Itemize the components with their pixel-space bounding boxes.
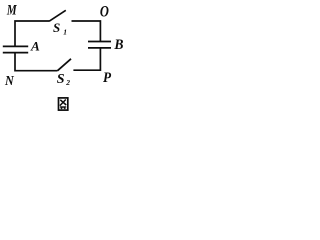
svg-text:N: N: [4, 74, 14, 89]
svg-text:O: O: [100, 3, 109, 21]
svg-text:P: P: [103, 69, 111, 86]
svg-text:A: A: [30, 38, 40, 53]
svg-text:2: 2: [65, 78, 70, 87]
svg-text:B: B: [113, 37, 123, 54]
svg-text:S: S: [57, 72, 65, 87]
svg-text:1: 1: [63, 28, 67, 37]
svg-text:M: M: [6, 2, 17, 18]
svg-text:S: S: [53, 20, 60, 35]
